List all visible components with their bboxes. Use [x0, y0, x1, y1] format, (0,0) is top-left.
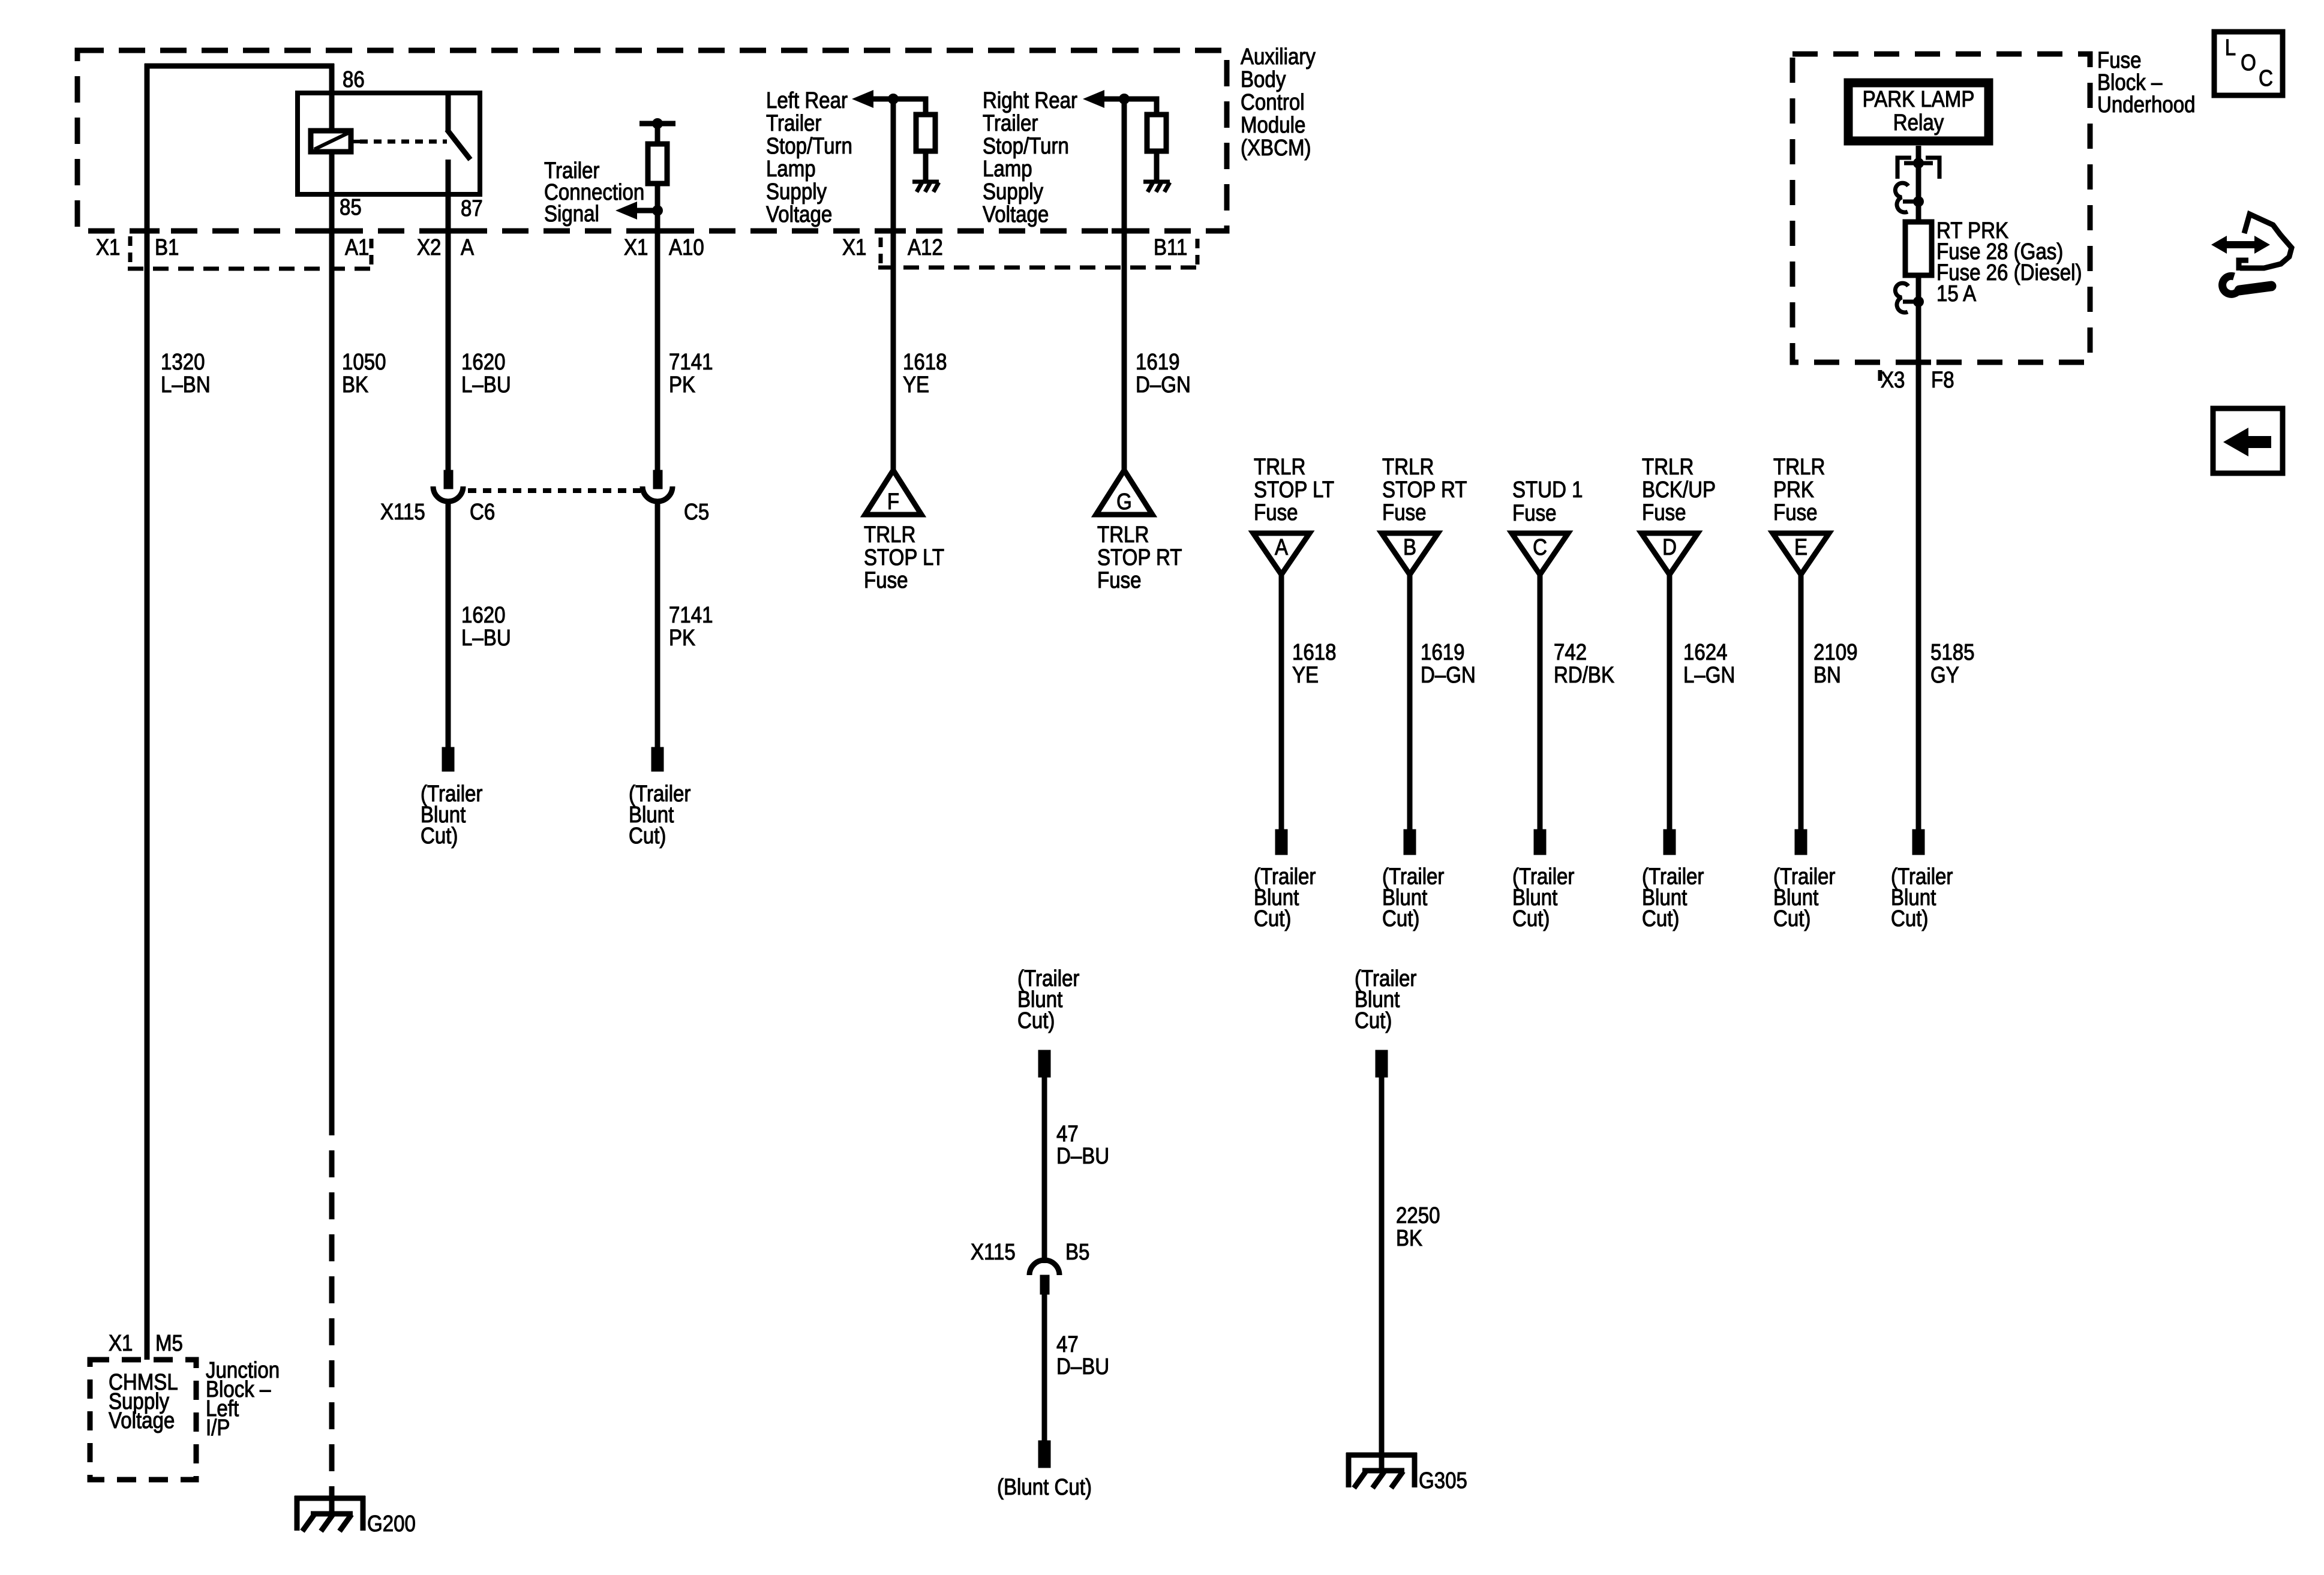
svg-text:F: F — [887, 489, 899, 515]
connector X115 C6 female cup — [433, 486, 463, 501]
blunt cut start of wire 47 D-BU — [1038, 1050, 1050, 1077]
svg-text:1624: 1624 — [1683, 639, 1728, 665]
wire 47 D-BU lower segment — [1042, 1294, 1047, 1442]
wire label 5185 GY — [1930, 639, 1975, 688]
label: Fuse Block - Underhood — [2097, 47, 2196, 118]
wire label 1619 D-GN (upper) — [1136, 349, 1191, 398]
relay linkage (dashed) — [360, 140, 447, 144]
svg-text:L–BN: L–BN — [161, 372, 211, 398]
fuse clip terminal (lower) — [1895, 283, 1924, 312]
relay switch contact 87 — [447, 93, 470, 160]
fuse holder B (triangle) — [1382, 533, 1438, 575]
arrow: Right Rear Trailer Stop/Turn Lamp Supply Voltage — [1083, 90, 1104, 108]
svg-text:D–GN: D–GN — [1421, 662, 1476, 688]
svg-text:Body: Body — [1241, 67, 1286, 92]
svg-text:Lamp: Lamp — [983, 156, 1032, 182]
svg-text:A12: A12 — [908, 235, 943, 260]
svg-text:BCK/UP: BCK/UP — [1642, 477, 1716, 503]
blunt cut start of wire 2250 BK — [1376, 1050, 1388, 1077]
connector X115 B5 female dome — [1029, 1260, 1059, 1275]
svg-text:X1: X1 — [109, 1330, 133, 1356]
dash tick where wire crosses fuse block bottom border — [1906, 360, 1931, 365]
svg-text:B1: B1 — [155, 235, 179, 260]
svg-text:BK: BK — [1396, 1225, 1422, 1251]
blunt cut end of wire 1619 — [1404, 829, 1416, 855]
wire: resistor to internal ground (left) — [923, 151, 929, 182]
svg-text:X3: X3 — [1881, 367, 1905, 393]
svg-text:STOP RT: STOP RT — [1382, 477, 1467, 503]
wire label 1050 BK — [342, 349, 386, 398]
svg-text:1320: 1320 — [161, 349, 205, 375]
svg-text:X115: X115 — [971, 1239, 1016, 1265]
svg-text:2109: 2109 — [1813, 639, 1858, 665]
ground symbol G200 — [295, 1496, 365, 1531]
svg-text:F8: F8 — [1931, 367, 1954, 393]
connector X115 C5 female cup — [642, 486, 672, 501]
svg-text:(XBCM): (XBCM) — [1241, 135, 1311, 161]
svg-text:Fuse: Fuse — [1773, 500, 1817, 525]
label: Trailer Blunt Cut — [1254, 864, 1316, 931]
svg-text:Cut): Cut) — [1382, 906, 1419, 931]
svg-text:E: E — [1794, 534, 1807, 560]
svg-text:1618: 1618 — [1292, 639, 1337, 665]
svg-text:Fuse: Fuse — [864, 567, 908, 593]
blunt cut end of wire 7141 — [651, 747, 663, 771]
wire: header bar at top of 7141 PK — [639, 121, 675, 127]
icon: diagnostic arrow + wrench — [2211, 214, 2292, 294]
blunt cut end of wire 1620 — [442, 747, 454, 771]
wire 47 D-BU upper segment — [1042, 1077, 1047, 1263]
connector stub at X3 — [1878, 370, 1882, 381]
wire 5185 GY: fuse down through X3 F8 to blunt cut — [1916, 275, 1921, 832]
wire label 1618 YE (fuse A) — [1292, 639, 1337, 688]
fuse holder E (triangle) — [1773, 533, 1829, 575]
wire label 1620 L-BU (upper) — [461, 349, 511, 398]
ground symbol G305 — [1346, 1453, 1417, 1488]
icon: LOC reference box — [2214, 32, 2283, 95]
label: TRLR STOP RT Fuse (G) — [1097, 522, 1182, 593]
svg-text:B5: B5 — [1065, 1239, 1089, 1265]
svg-text:Supply: Supply — [766, 179, 827, 205]
svg-text:STOP LT: STOP LT — [864, 545, 944, 570]
module box: Fuse Block - Underhood, dashed — [1792, 54, 2090, 362]
svg-text:Fuse: Fuse — [1097, 567, 1141, 593]
fuse clip terminal (upper) — [1895, 183, 1924, 212]
svg-text:Cut): Cut) — [1642, 906, 1679, 931]
svg-text:O: O — [2241, 50, 2256, 76]
wire label 47 D-BU (lower) — [1056, 1331, 1109, 1379]
svg-text:86: 86 — [343, 67, 365, 92]
wire 2250 BK down to G305 — [1379, 1077, 1385, 1471]
svg-text:TRLR: TRLR — [864, 522, 915, 548]
svg-text:1050: 1050 — [342, 349, 386, 375]
wire label 47 D-BU (upper) — [1056, 1121, 1109, 1169]
component box: PARK LAMP Relay — [1848, 83, 1989, 141]
wire 742 RD/BK from fuse C — [1538, 575, 1543, 832]
svg-text:7141: 7141 — [669, 349, 713, 375]
connector X115 C5 male blade — [653, 470, 662, 489]
svg-text:C6: C6 — [470, 499, 495, 525]
svg-text:Lamp: Lamp — [766, 156, 816, 182]
svg-text:Cut): Cut) — [1891, 906, 1928, 931]
svg-text:A10: A10 — [669, 235, 704, 260]
wire: resistor to internal ground (right) — [1154, 151, 1160, 182]
svg-text:X1: X1 — [842, 235, 866, 260]
svg-text:Fuse: Fuse — [1512, 500, 1556, 526]
junction node B11 output — [1119, 94, 1130, 104]
svg-text:D–GN: D–GN — [1136, 372, 1191, 398]
wire 1624 L–GN from fuse D — [1667, 575, 1673, 832]
label: TRLR STOP LT Fuse (F) — [864, 522, 944, 593]
svg-text:7141: 7141 — [669, 602, 713, 628]
svg-text:Relay: Relay — [1893, 110, 1944, 136]
svg-text:Cut): Cut) — [1355, 1008, 1392, 1033]
ground: XBCM internal (left) — [912, 182, 939, 192]
dashed connector line between X115 C6 and C5 — [468, 488, 641, 493]
blunt cut end of wire 742 — [1534, 829, 1546, 855]
blunt cut end of wire 47 D-BU — [1038, 1441, 1050, 1468]
wire: branch to XBCM internal resistor (right) — [1124, 99, 1157, 115]
wire label 7141 PK (lower) — [669, 602, 713, 651]
svg-text:B: B — [1403, 534, 1416, 560]
svg-text:Trailer: Trailer — [766, 110, 822, 136]
label: CHMSL Supply Voltage — [109, 1369, 178, 1433]
svg-text:YE: YE — [1292, 662, 1319, 688]
wire: arrow lead Left Rear supply — [871, 97, 893, 102]
svg-text:1619: 1619 — [1136, 349, 1180, 375]
svg-text:PK: PK — [669, 372, 695, 398]
label: STUD 1 Fuse (C) — [1512, 477, 1583, 526]
wire label 1320 L-BN — [161, 349, 211, 398]
svg-text:Cut): Cut) — [1017, 1008, 1055, 1033]
svg-text:Cut): Cut) — [1254, 906, 1291, 931]
wire: arrow lead for Trailer Connection Signal — [635, 208, 657, 214]
wire 1050 BK dashed portion down to G200 — [329, 1108, 335, 1513]
wire: relay coil 86/85 down to pin A1 (1050 BK solid part) — [329, 64, 335, 1108]
relay: Trailer Connection Relay outline — [298, 93, 480, 194]
label: Trailer Blunt Cut — [1891, 864, 1953, 931]
svg-text:1620: 1620 — [461, 602, 506, 628]
svg-text:C5: C5 — [684, 499, 709, 525]
junction node at top of 7141 PK — [652, 118, 663, 129]
connector box X1 (B1/A1), fine dashed — [128, 236, 378, 269]
svg-text:Stop/Turn: Stop/Turn — [983, 133, 1069, 159]
svg-text:Auxiliary: Auxiliary — [1241, 44, 1316, 70]
wire 1618 YE from fuse A — [1279, 575, 1284, 832]
svg-text:I/P: I/P — [206, 1415, 230, 1441]
label: TRLR BCK/UP Fuse (D) — [1642, 454, 1716, 525]
module box: CHMSL Supply Voltage (Junction Block - Left I/P), dashed — [90, 1360, 196, 1480]
label: TRLR PRK Fuse (E) — [1773, 454, 1825, 525]
blunt cut end of wire 1618 — [1275, 829, 1287, 855]
wire label 1624 L-GN — [1683, 639, 1735, 688]
wire 1618 YE: XBCM A12 down to fuse F — [891, 99, 896, 470]
svg-text:Cut): Cut) — [1773, 906, 1810, 931]
svg-text:BN: BN — [1813, 662, 1841, 688]
connector X115 C6 male blade — [444, 470, 453, 489]
wire label 2250 BK — [1396, 1203, 1440, 1251]
fuse holder A (triangle) — [1253, 533, 1310, 575]
svg-text:1619: 1619 — [1421, 639, 1465, 665]
wire 2109 BN from fuse E — [1798, 575, 1804, 832]
svg-text:L–BU: L–BU — [461, 372, 511, 398]
svg-text:A: A — [1275, 534, 1288, 560]
resistor: trailer connection signal pull-up — [648, 144, 667, 184]
label: Trailer Blunt Cut — [1642, 864, 1704, 931]
svg-text:X1: X1 — [96, 235, 120, 260]
svg-text:PARK LAMP: PARK LAMP — [1863, 86, 1975, 112]
label: Trailer Blunt Cut — [1773, 864, 1836, 931]
wire 1619 D-GN: XBCM B11 down to fuse G — [1122, 99, 1127, 470]
svg-text:GY: GY — [1930, 662, 1959, 688]
label: Left Rear Trailer Stop/Turn Lamp Supply Voltage — [766, 88, 852, 227]
fuse: RT PRK Fuse 28(Gas)/26(Diesel) 15A — [1905, 222, 1932, 275]
svg-text:D–BU: D–BU — [1056, 1143, 1109, 1169]
svg-text:(Blunt Cut): (Blunt Cut) — [997, 1474, 1092, 1500]
connector X115 B5 male blade — [1040, 1275, 1049, 1294]
wire label 7141 PK (upper) — [669, 349, 713, 398]
svg-text:87: 87 — [461, 196, 483, 221]
wire: PARK LAMP relay to RT PRK fuse — [1916, 146, 1921, 223]
arrow: Trailer Connection Signal (points left) — [615, 202, 637, 220]
svg-text:Trailer: Trailer — [983, 110, 1038, 136]
label: Auxiliary Body Control Module (XBCM) — [1241, 44, 1316, 161]
blunt cut end of wire 1624 — [1664, 829, 1676, 855]
wire label 1618 YE (upper) — [903, 349, 947, 398]
svg-text:B11: B11 — [1154, 235, 1187, 260]
svg-text:M5: M5 — [155, 1330, 183, 1356]
label: Right Rear Trailer Stop/Turn Lamp Supply Voltage — [983, 88, 1077, 227]
wire 1320 L-BN: pin B1 down to Junction Block X1-M5 — [145, 64, 150, 1360]
svg-text:15 A: 15 A — [1936, 281, 1976, 306]
wire 7141 PK below X115 C5 — [655, 501, 660, 749]
svg-text:1620: 1620 — [461, 349, 506, 375]
label: Trailer Connection Signal — [544, 158, 644, 227]
wire 7141 PK: resistor down to X115 C5 — [655, 124, 660, 471]
wire: branch to XBCM internal resistor (left) — [893, 99, 926, 115]
svg-text:PK: PK — [669, 625, 695, 651]
connector box X1 (A12/B11), fine dashed — [878, 238, 1202, 267]
svg-text:C: C — [1533, 534, 1547, 560]
svg-text:TRLR: TRLR — [1642, 454, 1694, 480]
svg-text:Control: Control — [1241, 89, 1305, 115]
svg-text:C: C — [2259, 65, 2273, 91]
fuse holder F: TRLR STOP LT Fuse (triangle) — [865, 470, 921, 515]
wire 1619 D–GN from fuse B — [1407, 575, 1413, 832]
fuse holder C (triangle) — [1512, 533, 1568, 575]
svg-text:TRLR: TRLR — [1773, 454, 1825, 480]
blunt cut end of wire 2109 — [1795, 829, 1807, 855]
svg-text:X1: X1 — [624, 235, 648, 260]
relay coil — [311, 131, 360, 152]
svg-text:RD/BK: RD/BK — [1554, 662, 1614, 688]
ground: XBCM internal (right) — [1143, 182, 1170, 192]
module box: Auxiliary Body Control Module (XBCM), dashed — [77, 50, 1227, 231]
label: Junction Block - Left I/P — [206, 1357, 280, 1441]
junction node: trailer connection signal tap — [652, 205, 663, 216]
svg-text:STOP RT: STOP RT — [1097, 545, 1182, 570]
svg-text:Underhood: Underhood — [2097, 92, 2196, 118]
svg-text:TRLR: TRLR — [1254, 454, 1305, 480]
wire: arrow lead Right Rear supply — [1102, 97, 1124, 102]
label: TRLR STOP LT Fuse (A) — [1254, 454, 1334, 525]
svg-text:Cut): Cut) — [629, 823, 666, 849]
svg-text:Fuse: Fuse — [1382, 500, 1426, 525]
svg-text:STOP LT: STOP LT — [1254, 477, 1334, 503]
svg-text:Voltage: Voltage — [766, 202, 832, 227]
icon: back-arrow box — [2213, 408, 2283, 473]
svg-text:2250: 2250 — [1396, 1203, 1440, 1228]
junction node A12 output — [888, 94, 899, 104]
svg-text:YE: YE — [903, 372, 929, 398]
svg-text:85: 85 — [340, 194, 362, 220]
svg-text:BK: BK — [342, 372, 368, 398]
svg-text:D–BU: D–BU — [1056, 1354, 1109, 1379]
svg-text:D: D — [1662, 534, 1677, 560]
svg-text:STUD 1: STUD 1 — [1512, 477, 1583, 503]
svg-text:TRLR: TRLR — [1382, 454, 1434, 480]
svg-text:L: L — [2225, 35, 2236, 61]
svg-text:Left Rear: Left Rear — [766, 88, 848, 113]
svg-text:L–GN: L–GN — [1683, 662, 1735, 688]
wire label 1619 D-GN (fuse B) — [1421, 639, 1476, 688]
svg-text:L–BU: L–BU — [461, 625, 511, 651]
svg-text:Right Rear: Right Rear — [983, 88, 1077, 113]
svg-text:Cut): Cut) — [1512, 906, 1550, 931]
relay terminal bracket — [1897, 158, 1939, 179]
svg-text:A1: A1 — [345, 235, 369, 260]
label: Trailer Blunt Cut — [1512, 864, 1575, 931]
svg-text:X115: X115 — [380, 499, 425, 525]
wire label 1620 L-BU (lower) — [461, 602, 511, 651]
label: Trailer Blunt Cut (2250) — [1355, 966, 1417, 1033]
wire: top jumper from relay 86 to CHMSL feed — [145, 64, 334, 69]
svg-text:A: A — [461, 235, 474, 260]
arrow: Left Rear Trailer Stop/Turn Lamp Supply Voltage — [852, 90, 873, 108]
wire 1620 L-BU: relay 87 down to X115 C6 — [446, 160, 451, 471]
label: Trailer Blunt Cut (1620) — [421, 781, 483, 849]
label: RT PRK fuse values — [1936, 218, 2082, 306]
resistor: XBCM internal (left) — [916, 115, 935, 151]
wire label 2109 BN — [1813, 639, 1858, 688]
svg-text:5185: 5185 — [1930, 639, 1975, 665]
svg-text:X2: X2 — [417, 235, 441, 260]
label: TRLR STOP RT Fuse (B) — [1382, 454, 1467, 525]
resistor: XBCM internal (right) — [1147, 115, 1166, 151]
fuse holder D (triangle) — [1641, 533, 1698, 575]
label: Trailer Blunt Cut (47) — [1017, 966, 1080, 1033]
svg-text:Fuse: Fuse — [1642, 500, 1686, 525]
svg-text:TRLR: TRLR — [1097, 522, 1149, 548]
svg-text:Fuse: Fuse — [1254, 500, 1298, 525]
svg-text:1618: 1618 — [903, 349, 947, 375]
svg-text:Cut): Cut) — [421, 823, 458, 849]
svg-text:Voltage: Voltage — [983, 202, 1049, 227]
dash ticks where wires cross XBCM bottom border — [134, 229, 1137, 234]
label: Trailer Blunt Cut (7141) — [629, 781, 691, 849]
wire label 742 RD/BK — [1554, 639, 1614, 688]
fuse holder G: TRLR STOP RT Fuse (triangle) — [1096, 470, 1152, 515]
svg-text:G305: G305 — [1419, 1468, 1467, 1493]
svg-text:Module: Module — [1241, 112, 1305, 138]
svg-text:G200: G200 — [367, 1511, 416, 1537]
wire 1620 L-BU below X115 C6 — [446, 501, 451, 749]
blunt cut end of wire 5185 — [1912, 829, 1924, 855]
svg-text:Stop/Turn: Stop/Turn — [766, 133, 852, 159]
svg-text:PRK: PRK — [1773, 477, 1814, 503]
svg-text:Voltage: Voltage — [109, 1408, 175, 1433]
label: Trailer Blunt Cut — [1382, 864, 1445, 931]
svg-text:Signal: Signal — [544, 201, 599, 227]
svg-text:G: G — [1116, 489, 1132, 515]
svg-text:742: 742 — [1554, 639, 1587, 665]
svg-text:Supply: Supply — [983, 179, 1043, 205]
